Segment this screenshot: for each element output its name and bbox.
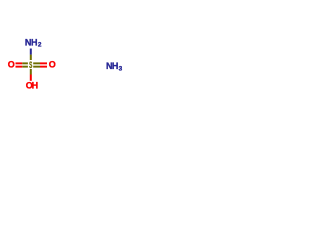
svg-text:3: 3 — [119, 66, 123, 73]
svg-text:2: 2 — [38, 42, 42, 49]
svg-text:NH: NH — [25, 37, 37, 47]
svg-text:OH: OH — [26, 81, 38, 91]
svg-text:S: S — [29, 60, 32, 70]
svg-text:O: O — [49, 60, 56, 70]
svg-text:O: O — [8, 60, 15, 70]
svg-text:NH: NH — [106, 61, 118, 71]
